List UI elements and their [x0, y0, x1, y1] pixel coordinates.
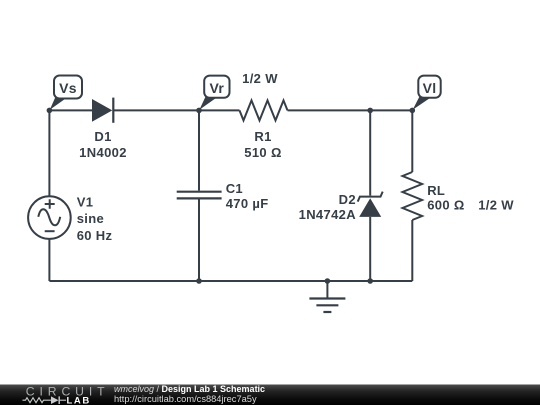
svg-text:C1: C1 — [226, 181, 243, 196]
wire Vr down to C1 — [198, 110, 200, 190]
wire C1 to bottom rail — [198, 200, 200, 282]
wire top rail down to D2 — [369, 110, 371, 195]
wire bottom rail — [49, 280, 412, 282]
logo wire squiggle — [23, 398, 52, 403]
wire RL to bottom rail — [411, 220, 413, 281]
diode D2 triangle — [359, 198, 381, 217]
svg-text:wmcelvog / Design Lab 1 Schema: wmcelvog / Design Lab 1 Schematic — [114, 384, 265, 394]
svg-text:http://circuitlab.com/cs884jre: http://circuitlab.com/cs884jrec7a5y — [114, 394, 257, 404]
wire V1 to bottom rail — [48, 239, 50, 281]
wire Vr to R1 — [199, 109, 240, 111]
capacitor C1 top plate — [177, 191, 222, 193]
ground bar 2 — [316, 304, 338, 306]
svg-text:470 µF: 470 µF — [226, 196, 269, 211]
svg-text:Vs: Vs — [59, 80, 77, 96]
wire top rail D1 to Vr — [113, 109, 199, 111]
svg-text:510 Ω: 510 Ω — [244, 145, 281, 160]
svg-text:1/2 W: 1/2 W — [478, 198, 514, 213]
logo wire after diode — [60, 399, 66, 401]
svg-text:R1: R1 — [254, 129, 271, 144]
node dot D2 bottom — [367, 278, 373, 284]
node dot D2 top — [367, 108, 373, 114]
voltage source V1 sine wave — [38, 209, 60, 225]
svg-text:60 Hz: 60 Hz — [77, 228, 113, 243]
node pointer Vs — [50, 95, 66, 110]
node pointer Vl — [413, 95, 430, 110]
ground stem — [326, 281, 328, 298]
node dot Vr — [196, 108, 202, 114]
node pointer Vr — [199, 95, 216, 110]
node dot ground — [325, 278, 331, 284]
svg-text:Vr: Vr — [209, 80, 224, 96]
svg-text:RL: RL — [427, 183, 445, 198]
capacitor C1 bottom plate — [177, 197, 222, 199]
resistor R1 zigzag — [240, 100, 288, 120]
svg-text:V1: V1 — [77, 195, 94, 210]
svg-text:LAB: LAB — [67, 396, 91, 405]
node dot Vl — [410, 108, 416, 114]
svg-text:1N4002: 1N4002 — [79, 145, 127, 160]
wire D2 to bottom rail — [369, 217, 371, 281]
ground bar 1 — [309, 297, 345, 299]
wire top rail R1 to Vl — [288, 109, 413, 111]
diode D1 cathode bar — [112, 98, 114, 123]
diode D2 zener bar — [358, 192, 383, 202]
voltage source V1 plus sign — [45, 199, 55, 209]
node label box Vs — [54, 76, 82, 99]
svg-text:D1: D1 — [94, 129, 111, 144]
logo diode symbol — [51, 396, 59, 404]
diode D1 triangle — [92, 99, 112, 122]
wire left vertical Vs to V1 — [48, 110, 50, 196]
svg-text:D2: D2 — [339, 192, 356, 207]
logo diode bar — [59, 396, 60, 404]
svg-text:600 Ω: 600 Ω — [427, 198, 464, 213]
wire Vl down to RL — [411, 110, 413, 172]
voltage source V1 circle — [28, 196, 71, 239]
resistor RL zigzag — [403, 172, 423, 220]
node label box Vl — [418, 76, 440, 98]
svg-text:sine: sine — [77, 211, 104, 226]
svg-text:1N4742A: 1N4742A — [299, 207, 357, 222]
voltage source V1 minus sign — [45, 230, 55, 232]
svg-text:Vl: Vl — [423, 80, 437, 96]
node dot Vs — [47, 108, 53, 114]
svg-text:1/2 W: 1/2 W — [242, 71, 278, 86]
node dot C1 bottom — [196, 278, 202, 284]
wire top rail Vs to D1 — [49, 109, 92, 111]
footer bar — [0, 385, 540, 405]
ground bar 3 — [323, 311, 331, 313]
node label box Vr — [204, 76, 229, 98]
